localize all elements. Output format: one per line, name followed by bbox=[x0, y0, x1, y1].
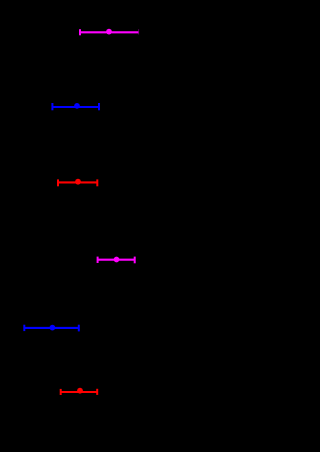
errorbar 6 right cap bbox=[96, 389, 98, 395]
errorbar 3 line bbox=[58, 181, 97, 183]
errorbar 3 marker bbox=[75, 179, 81, 185]
errorbar 2 right cap bbox=[98, 103, 100, 110]
errorbar 2 left cap bbox=[51, 103, 53, 110]
errorbar 1 (magenta) bbox=[80, 29, 139, 36]
errorbar 1 marker bbox=[106, 29, 112, 35]
errorbar 1 left cap bbox=[79, 29, 81, 35]
errorbar 5 line bbox=[24, 327, 79, 329]
errorbar 5 right cap bbox=[78, 325, 80, 332]
errorbar 2 (blue) bbox=[52, 103, 99, 110]
errorbar 6 left cap bbox=[60, 389, 62, 395]
errorbar 2 marker bbox=[74, 103, 80, 109]
errorbar 5 marker bbox=[50, 325, 56, 331]
errorbar 5 left cap bbox=[23, 325, 25, 331]
errorbar 1 right cap (dim) bbox=[138, 29, 140, 34]
errorbar 3 left cap bbox=[57, 179, 59, 186]
errorbar 6 (red) bbox=[61, 388, 97, 395]
errorbar 4 line bbox=[98, 259, 135, 261]
errorbar 4 (magenta) bbox=[98, 257, 135, 264]
errorbar 5 (blue) bbox=[24, 325, 79, 332]
errorbar 1 line bbox=[80, 31, 138, 33]
errorbar 4 marker bbox=[114, 257, 120, 263]
errorbar 6 line bbox=[61, 391, 97, 393]
errorbar 3 right cap bbox=[96, 179, 98, 186]
errorbar 6 marker bbox=[77, 388, 83, 394]
errorbar 4 left cap bbox=[97, 257, 99, 263]
errorbar 2 line bbox=[52, 106, 99, 108]
errorbar 4 right cap bbox=[134, 257, 136, 264]
errorbar 3 (red) bbox=[58, 179, 97, 187]
